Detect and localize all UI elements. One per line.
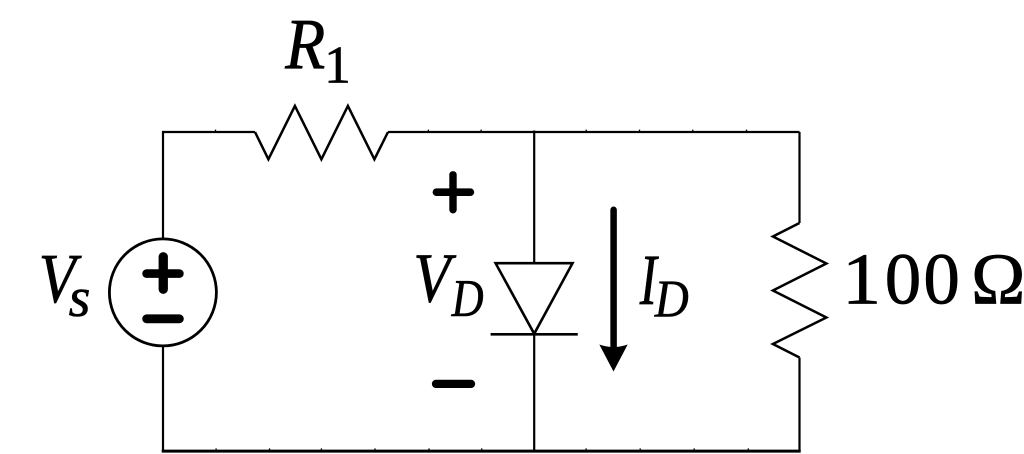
wire joint ticks: bottom rail [216,448,748,451]
wire: left vertical, source to bottom [162,346,164,451]
plus sign (VD polarity) [436,175,470,210]
wire: right vertical, top corner to resistor [798,132,800,223]
wire: right vertical, resistor to bottom corner [798,358,800,452]
plus sign inside source [147,257,180,289]
svg-text:D: D [654,271,689,329]
wire: top from middle node to right corner [534,131,800,133]
value label 100 Ω [842,239,1024,320]
svg-text:0: 0 [923,239,960,320]
svg-text:D: D [451,270,484,328]
wire: left vertical, top node to source [162,131,164,239]
svg-text:0: 0 [885,239,922,320]
label ID [639,240,689,329]
minus sign inside source [147,314,180,323]
minus sign (VD polarity) [436,380,471,388]
label VS [39,241,91,329]
svg-text:V: V [413,240,456,317]
wire joint ticks: top rail [216,130,747,133]
wire: bottom rail [162,450,801,453]
label VD [413,240,483,328]
resistor R1 [255,106,388,159]
wire: top from R1 to middle node [388,131,534,133]
svg-text:Ω: Ω [971,239,1024,320]
svg-text:R: R [284,4,325,84]
label R1 [284,4,350,95]
svg-text:s: s [69,267,91,329]
voltage source VS [109,239,216,346]
svg-text:1: 1 [324,37,351,95]
resistor 100 ohm [773,223,827,358]
svg-text:1: 1 [842,239,881,320]
diode D [491,263,578,334]
current arrow ID [599,210,627,372]
wire: middle vertical from diode to bottom [533,334,535,451]
wire: top-left segment from source node to R1 [163,131,255,133]
wire: middle vertical from top node to diode [533,131,535,264]
